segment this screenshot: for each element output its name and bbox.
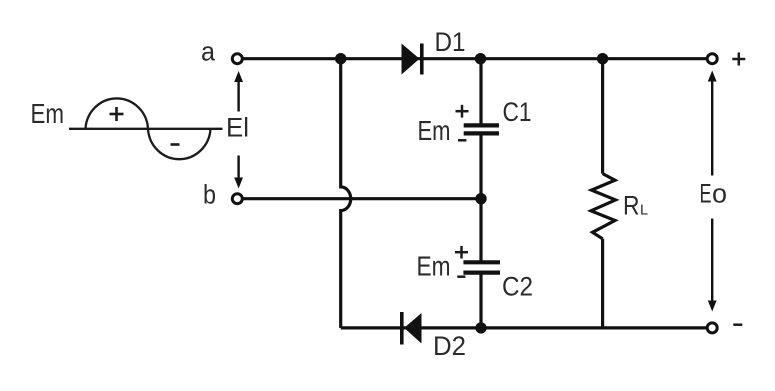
capacitor C1 xyxy=(464,125,499,133)
resistor RL xyxy=(591,174,616,239)
svg-text:C2: C2 xyxy=(502,272,533,302)
junction dot mid C1-C2 xyxy=(475,193,486,204)
C2 plus mark xyxy=(455,246,468,259)
output minus sign xyxy=(733,323,742,326)
svg-text:Em: Em xyxy=(31,98,65,129)
AC source sine wave xyxy=(69,98,223,159)
junction dot top-left xyxy=(335,53,346,64)
D1 label xyxy=(435,27,466,57)
capacitor C2 xyxy=(463,262,500,272)
Eo arrow down xyxy=(708,219,717,312)
sine + polarity xyxy=(110,107,124,121)
svg-text:Eo: Eo xyxy=(700,179,728,209)
node b label xyxy=(203,180,216,210)
C1 plus mark xyxy=(456,105,469,118)
svg-text:b: b xyxy=(203,180,216,210)
RL label xyxy=(623,191,648,221)
C1 minus mark xyxy=(458,139,466,142)
junction dot RL top xyxy=(597,53,608,64)
output plus sign xyxy=(732,53,745,66)
terminal a xyxy=(232,54,242,64)
output terminal minus xyxy=(707,323,717,333)
Eo label xyxy=(700,179,728,209)
svg-text:Em: Em xyxy=(418,115,451,146)
wire mid rail from b xyxy=(242,197,481,200)
wire bottom rail xyxy=(341,326,707,329)
wire capacitor branch verticals xyxy=(479,59,482,328)
terminal b xyxy=(232,194,242,204)
source label Em xyxy=(31,98,65,129)
wire top rail xyxy=(242,57,707,60)
Eo arrow up xyxy=(708,71,717,176)
El arrow down xyxy=(234,156,243,189)
C2 minus mark xyxy=(457,275,465,278)
junction dot D1 cathode xyxy=(475,53,486,64)
C2 label xyxy=(502,272,533,302)
El label xyxy=(226,113,249,143)
C1 Em label xyxy=(418,115,451,146)
C2 Em label xyxy=(417,251,451,282)
diode D1 xyxy=(402,44,422,75)
El arrow up xyxy=(234,71,243,112)
diode D2 xyxy=(402,312,422,345)
svg-text:a: a xyxy=(201,37,216,67)
svg-text:D2: D2 xyxy=(433,331,466,361)
sine - polarity xyxy=(171,143,180,146)
output terminal plus xyxy=(707,54,717,64)
svg-text:El: El xyxy=(226,113,249,143)
C1 label xyxy=(503,97,532,127)
svg-text:D1: D1 xyxy=(435,27,466,57)
D2 label xyxy=(433,331,466,361)
node a label xyxy=(201,37,216,67)
svg-text:Em: Em xyxy=(417,251,451,282)
wire RL branch verticals xyxy=(601,59,604,328)
wire left vertical with hop over b wire xyxy=(341,59,351,328)
junction dot bottom C2 xyxy=(475,322,486,333)
svg-text:C1: C1 xyxy=(503,97,532,127)
